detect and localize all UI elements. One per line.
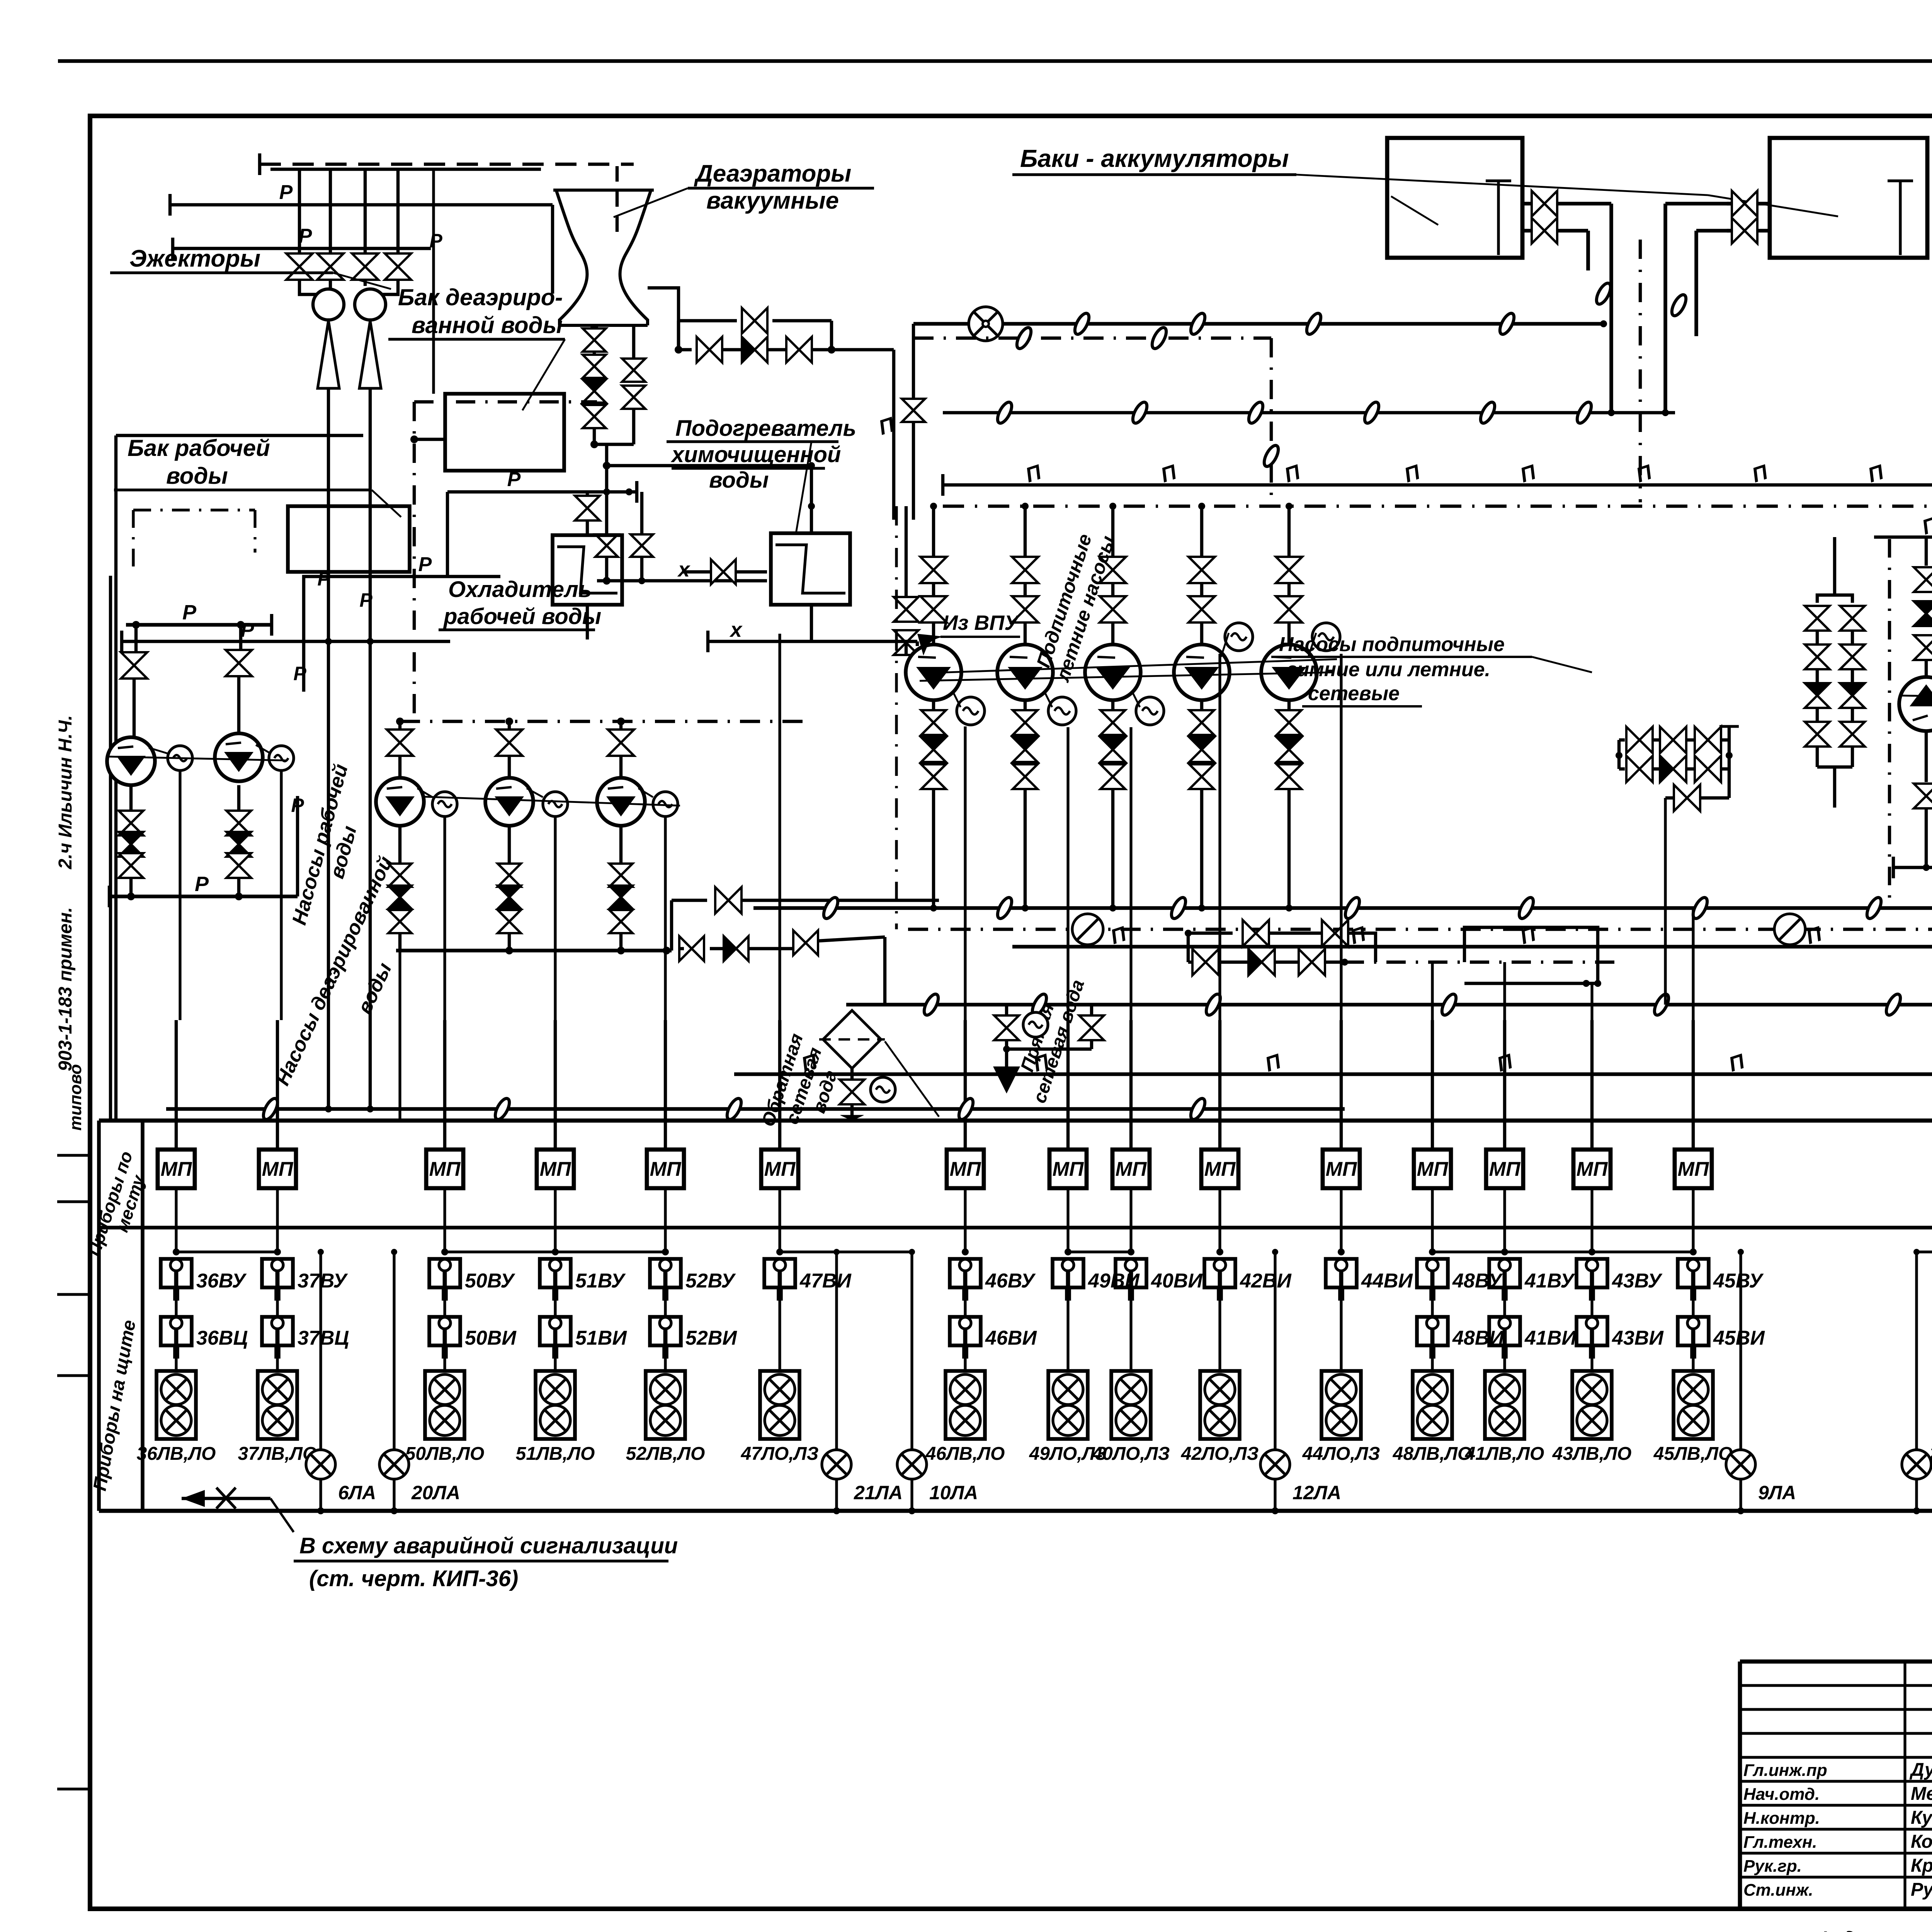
svg-text:46ВИ: 46ВИ: [985, 1327, 1037, 1349]
svg-text:50ВИ: 50ВИ: [465, 1327, 517, 1349]
svg-text:21ЛА: 21ЛА: [854, 1482, 903, 1503]
svg-text:42ВИ: 42ВИ: [1240, 1270, 1292, 1292]
svg-text:МП: МП: [161, 1158, 192, 1180]
svg-text:Гл.техн.: Гл.техн.: [1743, 1833, 1817, 1852]
svg-text:Р: Р: [195, 872, 209, 896]
svg-text:вакуумные: вакуумные: [706, 187, 839, 214]
svg-text:МП: МП: [1326, 1158, 1357, 1180]
svg-text:12ЛА: 12ЛА: [1293, 1482, 1341, 1503]
svg-text:Федорова: Федорова: [1816, 1928, 1915, 1932]
svg-text:Р: Р: [359, 589, 372, 611]
svg-text:МП: МП: [1489, 1158, 1521, 1180]
svg-text:рабочей воды: рабочей воды: [443, 604, 601, 629]
svg-text:43ЛВ,ЛО: 43ЛВ,ЛО: [1552, 1444, 1632, 1464]
svg-text:МП: МП: [262, 1158, 294, 1180]
svg-text:Руттасе: Руттасе: [1911, 1879, 1932, 1900]
svg-text:Эжекторы: Эжекторы: [129, 245, 260, 272]
svg-text:47ЛО,ЛЗ: 47ЛО,ЛЗ: [741, 1444, 819, 1464]
svg-text:Р: Р: [299, 225, 312, 247]
svg-text:МП: МП: [1417, 1158, 1449, 1180]
svg-text:МП: МП: [1053, 1158, 1084, 1180]
svg-text:46ВУ: 46ВУ: [985, 1270, 1036, 1292]
svg-text:44ЛО,ЛЗ: 44ЛО,ЛЗ: [1302, 1444, 1380, 1464]
svg-text:52ВИ: 52ВИ: [685, 1327, 737, 1349]
svg-text:36ВЦ: 36ВЦ: [196, 1327, 248, 1349]
svg-text:Р: Р: [418, 553, 432, 576]
svg-text:зимние или летние.: зимние или летние.: [1287, 658, 1490, 681]
svg-text:Кушель: Кушель: [1911, 1808, 1932, 1828]
svg-text:МП: МП: [540, 1158, 571, 1180]
svg-text:Бак рабочей: Бак рабочей: [128, 435, 270, 461]
svg-text:Р: Р: [507, 468, 521, 491]
svg-text:10ЛА: 10ЛА: [929, 1482, 978, 1503]
svg-text:Н.контр.: Н.контр.: [1743, 1809, 1820, 1828]
svg-text:6ЛА: 6ЛА: [338, 1482, 376, 1503]
svg-text:типово: типово: [66, 1064, 85, 1131]
svg-text:МП: МП: [650, 1158, 682, 1180]
svg-text:50ВУ: 50ВУ: [465, 1270, 515, 1292]
svg-text:Пров.: Пров.: [1743, 1929, 1795, 1932]
svg-text:48ЛВ,ЛО: 48ЛВ,ЛО: [1393, 1444, 1472, 1464]
svg-text:36ЛВ,ЛО: 36ЛВ,ЛО: [137, 1444, 216, 1464]
svg-text:Бак деаэриро-: Бак деаэриро-: [398, 284, 563, 310]
svg-text:Р: Р: [429, 230, 442, 252]
svg-text:40ВИ: 40ВИ: [1151, 1270, 1203, 1292]
svg-text:Р: Р: [293, 663, 306, 684]
svg-text:51ВУ: 51ВУ: [575, 1270, 626, 1292]
svg-text:45ВУ: 45ВУ: [1713, 1270, 1764, 1292]
svg-text:52ВУ: 52ВУ: [685, 1270, 736, 1292]
svg-text:Насосы подпиточные: Насосы подпиточные: [1279, 633, 1505, 656]
svg-text:36ВУ: 36ВУ: [196, 1270, 247, 1292]
svg-text:40ЛО,ЛЗ: 40ЛО,ЛЗ: [1092, 1444, 1170, 1464]
svg-text:воды: воды: [709, 468, 769, 493]
svg-text:МП: МП: [1204, 1158, 1236, 1180]
svg-text:43ВУ: 43ВУ: [1612, 1270, 1663, 1292]
svg-text:Рук.гр.: Рук.гр.: [1743, 1857, 1802, 1876]
svg-text:Охладитель: Охладитель: [448, 577, 592, 602]
svg-text:Гл.инж.пр: Гл.инж.пр: [1743, 1761, 1827, 1780]
svg-text:Деаэраторы: Деаэраторы: [694, 160, 851, 187]
svg-text:Ст.инж.: Ст.инж.: [1743, 1881, 1813, 1900]
svg-text:х: х: [677, 558, 690, 581]
svg-text:47ВИ: 47ВИ: [799, 1270, 852, 1292]
svg-text:Мейман: Мейман: [1911, 1784, 1932, 1804]
svg-text:37ВУ: 37ВУ: [298, 1270, 348, 1292]
svg-text:(ст. черт. КИП-36): (ст. черт. КИП-36): [309, 1566, 518, 1591]
svg-text:44ВИ: 44ВИ: [1361, 1270, 1413, 1292]
svg-text:химочищенной: химочищенной: [670, 442, 841, 467]
svg-text:41ВУ: 41ВУ: [1524, 1270, 1575, 1292]
svg-text:37ВЦ: 37ВЦ: [298, 1327, 349, 1349]
svg-text:50ЛВ,ЛО: 50ЛВ,ЛО: [405, 1444, 485, 1464]
svg-text:Крауле: Крауле: [1911, 1855, 1932, 1876]
svg-text:46ЛВ,ЛО: 46ЛВ,ЛО: [925, 1444, 1005, 1464]
svg-text:МП: МП: [429, 1158, 461, 1180]
svg-text:45ВИ: 45ВИ: [1713, 1327, 1765, 1349]
svg-text:Нач.отд.: Нач.отд.: [1743, 1785, 1820, 1804]
svg-text:Конькова: Конькова: [1911, 1832, 1932, 1852]
svg-text:В схему аварийной сигнализац: В схему аварийной сигнализации: [299, 1533, 678, 1558]
svg-text:Р: Р: [291, 794, 304, 816]
svg-text:2.ч Ильичин Н.Ч.: 2.ч Ильичин Н.Ч.: [55, 715, 76, 870]
svg-text:Думан: Думан: [1909, 1760, 1932, 1780]
svg-text:9ЛА: 9ЛА: [1758, 1482, 1796, 1503]
svg-text:Р: Р: [182, 601, 197, 624]
svg-text:МП: МП: [1116, 1158, 1147, 1180]
svg-text:43ВИ: 43ВИ: [1612, 1327, 1664, 1349]
svg-text:Из ВПУ: Из ВПУ: [943, 611, 1020, 634]
svg-text:МП: МП: [764, 1158, 796, 1180]
svg-text:МП: МП: [1577, 1158, 1608, 1180]
svg-text:воды: воды: [166, 463, 228, 489]
svg-text:Баки - аккумуляторы: Баки - аккумуляторы: [1020, 145, 1289, 172]
svg-text:МП: МП: [1678, 1158, 1709, 1180]
svg-text:45ЛВ,ЛО: 45ЛВ,ЛО: [1653, 1444, 1733, 1464]
svg-text:х: х: [729, 618, 743, 641]
svg-text:51ВИ: 51ВИ: [575, 1327, 627, 1349]
svg-text:41ЛВ,ЛО: 41ЛВ,ЛО: [1465, 1444, 1544, 1464]
svg-text:МП: МП: [950, 1158, 981, 1180]
svg-text:20ЛА: 20ЛА: [411, 1482, 460, 1503]
svg-text:Р: Р: [279, 181, 293, 204]
svg-text:42ЛО,ЛЗ: 42ЛО,ЛЗ: [1181, 1444, 1259, 1464]
svg-text:903-1-183 примен.: 903-1-183 примен.: [55, 907, 76, 1071]
svg-text:52ЛВ,ЛО: 52ЛВ,ЛО: [626, 1444, 705, 1464]
svg-text:51ЛВ,ЛО: 51ЛВ,ЛО: [516, 1444, 595, 1464]
svg-text:сетевые: сетевые: [1308, 682, 1400, 705]
svg-text:41ВИ: 41ВИ: [1524, 1327, 1577, 1349]
svg-text:Подогреватель: Подогреватель: [675, 416, 856, 441]
